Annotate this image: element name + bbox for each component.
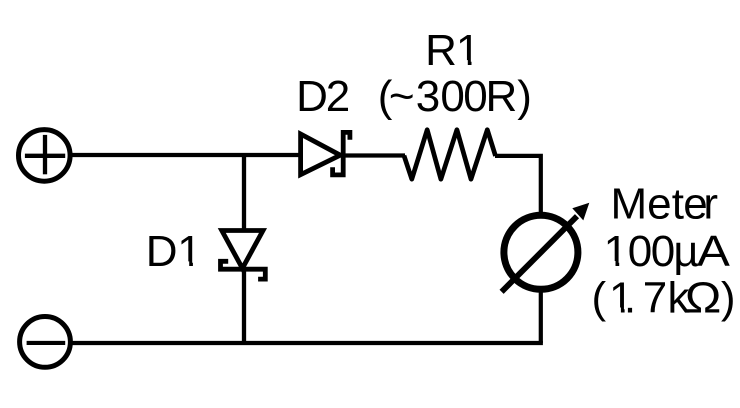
- wire from D2 cathode to R1: [343, 153, 405, 157]
- svg-text:D2: D2: [296, 72, 350, 121]
- meter M1 circle: [504, 215, 578, 289]
- label (~300R) value of R1: [378, 72, 532, 121]
- negative terminal circle: [20, 317, 71, 368]
- diode D2 zener cathode bar with hooks: [333, 132, 350, 175]
- diode D1 zener cathode bar with hooks: [221, 261, 266, 279]
- diode D2 triangle (zener, pointing right): [301, 134, 341, 175]
- resistor R1 zigzag: [404, 130, 496, 180]
- svg-text:A: A: [697, 226, 731, 275]
- label D2: [296, 72, 350, 121]
- bottom wire from - terminal to meter bottom: [73, 341, 543, 345]
- positive terminal plus sign: [25, 135, 65, 174]
- svg-text:(~300R): (~300R): [378, 72, 532, 121]
- label D1: [146, 227, 202, 276]
- wire from bottom wire up to meter bottom: [539, 290, 543, 344]
- svg-text:100µ: 100µ: [604, 227, 699, 276]
- diode D1 triangle (zener, pointing down): [222, 231, 263, 269]
- wire junction down from top wire to D1: [242, 155, 246, 233]
- negative terminal minus sign: [27, 341, 66, 345]
- meter M1 arrowhead: [572, 203, 589, 221]
- svg-text:D1: D1: [146, 227, 202, 276]
- svg-text:.7k: .7k: [624, 273, 691, 322]
- label (1.7kOhm) value: [592, 273, 736, 323]
- wire from D1 cathode to bottom wire: [242, 269, 246, 343]
- svg-text:R1: R1: [425, 26, 480, 75]
- meter M1 arrow shaft: [502, 216, 577, 292]
- svg-text:Meter: Meter: [611, 179, 719, 228]
- label 100uA value: [604, 226, 731, 276]
- wire from R1 to meter top (elbow): [495, 156, 541, 216]
- svg-text:): ): [721, 273, 736, 322]
- svg-text:Ω: Ω: [685, 273, 721, 322]
- label R1: [425, 26, 480, 75]
- label Meter: [611, 179, 719, 228]
- positive terminal circle: [19, 130, 71, 182]
- wire from + terminal to D2 anode: [72, 153, 302, 157]
